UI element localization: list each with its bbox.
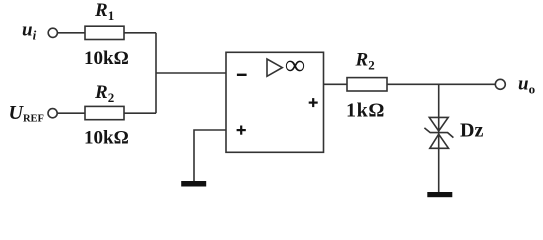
zener diode Dz bottom triangle xyxy=(430,134,449,148)
wire R1 to bus node xyxy=(124,32,156,34)
wire op-amp output to R2out xyxy=(324,83,348,85)
svg-text:UREF: UREF xyxy=(9,102,44,125)
wire junction down to zener xyxy=(438,84,440,134)
op-amp gain triangle xyxy=(267,59,282,76)
wire bus to inverting input xyxy=(156,72,226,74)
node uo output terminal xyxy=(495,79,505,89)
svg-text:R2: R2 xyxy=(355,50,375,73)
svg-text:1kΩ: 1kΩ xyxy=(346,100,385,122)
svg-text:uo: uo xyxy=(518,74,535,97)
op-amp U1 body xyxy=(226,52,324,152)
resistor R1 xyxy=(85,26,124,39)
zener diode Dz top triangle xyxy=(429,117,448,131)
ground symbol left bar xyxy=(181,181,206,187)
wire zener to ground xyxy=(438,134,440,192)
node UREF input terminal xyxy=(48,109,57,118)
wire summing bus vertical xyxy=(155,33,157,113)
wire noninverting input xyxy=(194,130,226,181)
svg-text:R2: R2 xyxy=(94,82,114,105)
svg-text:10kΩ: 10kΩ xyxy=(84,128,129,149)
wire ui terminal to R1 xyxy=(57,32,85,34)
op-amp noninverting sign xyxy=(237,129,246,131)
op-amp inverting sign xyxy=(237,74,247,76)
resistor R2 xyxy=(85,106,124,119)
svg-text:ui: ui xyxy=(22,20,37,43)
ground symbol right bar xyxy=(427,192,452,197)
node ui input terminal xyxy=(48,28,57,37)
wire R2 to bus node xyxy=(124,112,156,114)
wire R2out to uo terminal xyxy=(387,83,495,85)
svg-text:∞: ∞ xyxy=(285,50,305,81)
resistor R2 output xyxy=(347,78,387,91)
op-amp output plus sign xyxy=(309,102,318,104)
wire UREF terminal to R2 xyxy=(57,112,85,114)
svg-text:Dz: Dz xyxy=(460,120,483,142)
svg-text:10kΩ: 10kΩ xyxy=(84,48,129,69)
svg-text:R1: R1 xyxy=(94,0,114,23)
zener diode Dz bar xyxy=(424,128,453,138)
